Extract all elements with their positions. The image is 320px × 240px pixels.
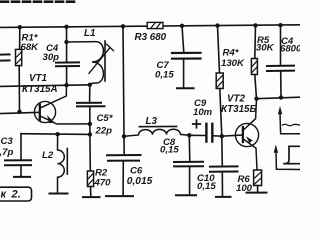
capacitor C8 <box>174 162 203 167</box>
wire C7 top lead <box>182 26 184 53</box>
svg-text:6800: 6800 <box>280 44 300 55</box>
wire C7 bottom lead <box>183 59 185 88</box>
svg-text:L2: L2 <box>42 150 54 161</box>
svg-text:C5*: C5* <box>97 113 114 124</box>
wire C4b top lead <box>280 25 282 65</box>
svg-text:VT1: VT1 <box>29 73 47 84</box>
inductor L1 <box>67 41 114 85</box>
wire C9 left lead <box>189 134 205 136</box>
wire C10 bottom lead <box>221 172 223 197</box>
wire C5 top lead <box>89 85 91 103</box>
wire C3 top lead <box>20 134 22 161</box>
svg-text:0,15: 0,15 <box>197 181 216 192</box>
wire C4 bottom lead <box>66 66 68 85</box>
inductor L2 <box>58 134 68 193</box>
ground C8 <box>176 194 196 196</box>
VT1 emitter <box>41 116 90 124</box>
node top rail C4b <box>278 23 282 27</box>
node L1 tap <box>64 40 68 44</box>
node base/R1 <box>17 110 21 114</box>
capacitor C9 polarity <box>193 120 200 127</box>
resistor R1 <box>16 49 22 65</box>
svg-text:68K: 68K <box>21 42 40 53</box>
node L1 bottom <box>88 83 92 87</box>
svg-text:R4*: R4* <box>223 48 240 59</box>
wire R4 top lead <box>218 26 220 73</box>
wire R4 bottom lead <box>220 89 222 137</box>
wire R6 bottom lead <box>257 186 259 193</box>
wire VT1 base input <box>0 112 40 113</box>
wire R1 bottom lead <box>18 66 20 112</box>
node L2 top <box>55 132 59 136</box>
node VT2 base <box>220 134 224 138</box>
node C4b/rail <box>279 95 283 99</box>
svg-text:VT2: VT2 <box>227 94 246 105</box>
svg-text:0,15: 0,15 <box>160 144 179 155</box>
svg-text:R3 680: R3 680 <box>135 32 167 43</box>
wire R1 top lead <box>19 27 21 49</box>
transistor VT2 <box>235 99 258 170</box>
L1 adjust arrow <box>89 48 110 74</box>
node top rail C4/L1 <box>64 25 68 29</box>
wire C9 right lead <box>214 135 222 137</box>
wire C6 bottom lead <box>122 161 124 196</box>
VT2 collector <box>244 99 257 130</box>
ground L2 <box>50 193 68 195</box>
svg-text:100: 100 <box>236 183 253 194</box>
wire C4 top lead <box>66 27 68 63</box>
L2 core line <box>66 149 68 175</box>
wire C8 top lead <box>188 135 191 162</box>
wire R5 top lead <box>254 25 257 58</box>
node top rail L3 column <box>121 24 125 28</box>
svg-text:130K: 130K <box>221 58 245 69</box>
wire VT2 base lead <box>222 135 243 136</box>
svg-text:0,015: 0,015 <box>127 176 153 187</box>
svg-text:10m: 10m <box>193 107 213 118</box>
wire C5 bottom lead <box>89 106 91 134</box>
capacitor trimmer stub left edge <box>1 54 10 60</box>
node C5/R2 <box>88 132 92 136</box>
ground C6 <box>106 195 133 197</box>
wire collector rail VT2 <box>257 97 301 99</box>
capacitor C5 <box>77 103 105 107</box>
svg-text:470: 470 <box>94 178 112 189</box>
dashed border top <box>1 0 74 3</box>
wire C4b bottom lead <box>280 71 282 98</box>
capacitor C3 <box>5 160 31 165</box>
ground C7 <box>177 87 194 89</box>
VT1 collector <box>41 85 67 107</box>
svg-text:0,15: 0,15 <box>155 70 174 81</box>
VT2 emitter <box>244 140 257 171</box>
caption box <box>0 187 32 201</box>
node R5/collector <box>254 97 258 101</box>
svg-text:КТ315Б: КТ315Б <box>221 104 256 115</box>
wire output arm 1 <box>278 106 300 134</box>
capacitor C10 <box>210 166 238 171</box>
transistor VT1 <box>34 85 90 124</box>
wire C10 top lead <box>221 136 224 166</box>
node emitter/C5 <box>88 122 92 126</box>
inductor L3 <box>124 126 189 136</box>
svg-text:2.: 2. <box>11 189 21 201</box>
svg-text:,7p: ,7p <box>0 147 14 158</box>
ground C10 <box>216 196 231 198</box>
ground C3 <box>14 176 30 178</box>
box next stage fragment <box>285 146 300 163</box>
node top rail R5 <box>253 23 257 27</box>
node L3 right <box>187 133 191 137</box>
svg-text:30K: 30K <box>256 42 275 53</box>
node top rail R1 <box>18 25 22 29</box>
resistor R6 <box>254 170 262 186</box>
wire top supply rail <box>0 25 300 28</box>
wire L3/C6 column <box>123 26 124 136</box>
capacitor C9 <box>206 124 212 142</box>
capacitor C6 <box>107 155 141 161</box>
L3 core line <box>139 125 176 127</box>
svg-text:L3: L3 <box>146 116 158 127</box>
wire emitter rail lower <box>21 133 90 136</box>
resistor R2 <box>87 171 93 187</box>
resistor R3 <box>147 22 163 28</box>
svg-text:C3: C3 <box>1 136 14 147</box>
svg-text:L1: L1 <box>84 28 95 39</box>
wire output arm 2 <box>274 145 300 170</box>
svg-text:КТ315А: КТ315А <box>22 84 58 95</box>
wire C3 bottom lead <box>20 165 22 177</box>
node top rail C7 <box>180 24 184 28</box>
svg-text:30p: 30p <box>43 52 60 63</box>
resistor R4 <box>216 73 223 89</box>
resistor R5 <box>251 59 257 75</box>
ground R2 <box>83 196 100 198</box>
capacitor C4 30p <box>56 62 79 66</box>
L1 core line <box>104 41 106 81</box>
wire R2 top lead <box>89 134 91 171</box>
wire R5 bottom lead <box>255 75 257 99</box>
capacitor C4b 6800 <box>267 66 294 71</box>
node L3 left <box>122 134 126 138</box>
svg-text:22p: 22p <box>95 125 113 136</box>
wire R2 bottom lead <box>90 187 92 198</box>
wire collector bus VT1 <box>0 85 90 87</box>
node top rail R4 <box>215 23 219 27</box>
wire C6 top lead <box>123 136 125 155</box>
capacitor C7 <box>172 53 201 59</box>
ground R6 <box>247 192 267 194</box>
wire C8 bottom lead <box>189 166 191 195</box>
node C4/collector <box>64 83 68 87</box>
